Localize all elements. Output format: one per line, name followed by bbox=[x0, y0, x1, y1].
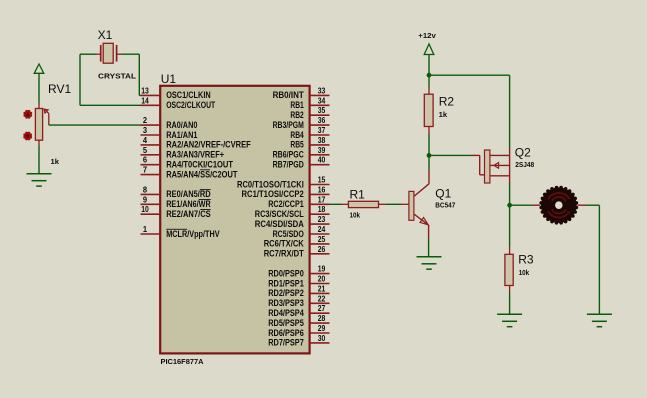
wire X1 right to U1 pin 13 bbox=[121, 54, 141, 95]
RV1 actuator marker upper bbox=[23, 110, 32, 119]
svg-text:PIC16F877A: PIC16F877A bbox=[161, 357, 205, 366]
node junction Q2/motor/R3 bbox=[507, 203, 512, 208]
ground right of motor bbox=[587, 314, 612, 326]
crystal X1 bbox=[96, 43, 121, 63]
U1 pin 4 bbox=[141, 136, 252, 150]
svg-text:34: 34 bbox=[318, 96, 326, 105]
svg-text:RB6/PGC: RB6/PGC bbox=[273, 150, 305, 160]
ground under Q1 bbox=[417, 257, 442, 269]
U1 pin 16 bbox=[242, 185, 330, 199]
U1 pin 39 bbox=[273, 146, 330, 160]
svg-text:16: 16 bbox=[318, 185, 326, 194]
wire junction to motor bbox=[510, 204, 540, 206]
potentiometer RV1 bbox=[35, 109, 48, 141]
RV1 actuator marker lower bbox=[23, 132, 32, 141]
svg-text:RC7/RX/DT: RC7/RX/DT bbox=[264, 249, 305, 259]
svg-text:RC0/T1OSO/T1CKI: RC0/T1OSO/T1CKI bbox=[237, 179, 304, 189]
wire junction to R3 bbox=[509, 205, 511, 254]
U1 pin 24 bbox=[273, 225, 330, 239]
U1 pin 15 bbox=[237, 176, 330, 190]
motor M1 bbox=[539, 186, 578, 225]
svg-text:10: 10 bbox=[141, 205, 149, 214]
wire R3 bottom to ground bbox=[509, 286, 511, 315]
svg-text:RD1/PSP1: RD1/PSP1 bbox=[268, 278, 304, 288]
svg-text:3: 3 bbox=[143, 126, 148, 135]
wire RV1 wiper to U1 pin 2 bbox=[49, 124, 141, 126]
svg-text:RD2/PSP2: RD2/PSP2 bbox=[268, 288, 304, 298]
wire R1 to Q1 base bbox=[379, 203, 409, 205]
svg-text:1: 1 bbox=[143, 225, 148, 234]
U1 pin 23 bbox=[255, 215, 330, 229]
U1 pin 10 bbox=[141, 205, 211, 219]
svg-text:1k: 1k bbox=[439, 110, 448, 119]
U1 pin 26 bbox=[264, 245, 330, 259]
U1 pin 14 bbox=[141, 96, 216, 110]
svg-text:RC2/CCP1: RC2/CCP1 bbox=[268, 199, 304, 209]
svg-text:RA4/T0CKI/C1OUT: RA4/T0CKI/C1OUT bbox=[166, 160, 233, 170]
U1 pin 1 bbox=[141, 225, 220, 239]
svg-text:37: 37 bbox=[318, 126, 326, 135]
svg-text:30: 30 bbox=[318, 334, 326, 343]
svg-text:27: 27 bbox=[318, 304, 326, 313]
svg-text:24: 24 bbox=[318, 225, 326, 234]
wire R2 bottom to junction bbox=[428, 127, 430, 156]
wire X1 left to U1 pin 14 bbox=[80, 54, 141, 105]
U1 pin 18 bbox=[255, 205, 330, 219]
svg-text:Q2: Q2 bbox=[515, 145, 531, 159]
svg-text:CRYSTAL: CRYSTAL bbox=[98, 72, 137, 81]
resistor R1 bbox=[348, 201, 378, 207]
svg-text:25: 25 bbox=[318, 235, 326, 244]
svg-text:RA2/AN2/VREF-/CVREF: RA2/AN2/VREF-/CVREF bbox=[166, 140, 251, 150]
wire power to RV1 top bbox=[38, 73, 40, 108]
U1 pin 28 bbox=[268, 314, 329, 328]
U1 pin 33 bbox=[273, 86, 330, 100]
U1 pin 22 bbox=[268, 294, 329, 308]
wire +12v rail down bbox=[428, 55, 430, 76]
svg-text:10k: 10k bbox=[519, 268, 530, 277]
svg-text:8: 8 bbox=[143, 185, 148, 194]
wire U1 pin 17 to R1 bbox=[330, 203, 349, 205]
svg-text:RE1/AN6/WR: RE1/AN6/WR bbox=[166, 199, 211, 209]
svg-text:RB5: RB5 bbox=[290, 140, 303, 150]
svg-text:RB4: RB4 bbox=[290, 130, 303, 140]
svg-text:26: 26 bbox=[318, 245, 326, 254]
U1 pin 37 bbox=[290, 126, 329, 140]
ground under R3 bbox=[497, 314, 522, 326]
svg-text:RC1/T1OSI/CCP2: RC1/T1OSI/CCP2 bbox=[242, 189, 304, 199]
svg-text:R3: R3 bbox=[518, 252, 534, 266]
svg-text:R2: R2 bbox=[439, 94, 455, 108]
U1 pin 5 bbox=[141, 146, 225, 160]
U1 pin 7 bbox=[141, 166, 238, 180]
svg-text:R1: R1 bbox=[350, 187, 366, 201]
wire junction to Q2 gate bbox=[429, 155, 485, 174]
power symbol +12v arrow bbox=[424, 44, 434, 55]
node junction top rail bbox=[427, 73, 432, 78]
svg-text:35: 35 bbox=[318, 106, 326, 115]
svg-text:RV1: RV1 bbox=[48, 82, 71, 96]
svg-text:RA5/AN4/SS/C2OUT: RA5/AN4/SS/C2OUT bbox=[166, 169, 238, 179]
svg-text:RA3/AN3/VREF+: RA3/AN3/VREF+ bbox=[166, 150, 224, 160]
ground under RV1 bbox=[27, 174, 52, 186]
U1 pin 36 bbox=[273, 116, 330, 130]
U1 pin 29 bbox=[268, 324, 329, 338]
U1 pin 20 bbox=[268, 275, 329, 289]
resistor R2 bbox=[424, 94, 433, 126]
node junction R2/Q1/Q2 bbox=[427, 153, 432, 158]
svg-text:OSC1/CLKIN: OSC1/CLKIN bbox=[166, 90, 211, 100]
svg-text:38: 38 bbox=[318, 136, 326, 145]
svg-text:40: 40 bbox=[318, 156, 326, 165]
svg-text:36: 36 bbox=[318, 116, 326, 125]
svg-text:RC6/TX/CK: RC6/TX/CK bbox=[264, 239, 305, 249]
svg-text:19: 19 bbox=[318, 265, 326, 274]
transistor Q1 bbox=[409, 184, 429, 225]
svg-text:Q1: Q1 bbox=[435, 186, 451, 200]
U1 pin 13 bbox=[141, 86, 211, 100]
wire Q1 emitter to ground bbox=[428, 225, 430, 257]
svg-text:+12v: +12v bbox=[418, 31, 436, 40]
U1 pin 19 bbox=[268, 265, 329, 279]
U1 pin 2 bbox=[141, 116, 198, 130]
svg-text:RC4/SDI/SDA: RC4/SDI/SDA bbox=[255, 219, 305, 229]
svg-text:20: 20 bbox=[318, 275, 326, 284]
U1 pin 9 bbox=[141, 195, 212, 209]
svg-text:RB7/PGD: RB7/PGD bbox=[273, 160, 304, 170]
svg-text:39: 39 bbox=[318, 146, 326, 155]
svg-text:MCLR/Vpp/THV: MCLR/Vpp/THV bbox=[166, 229, 219, 239]
svg-text:RB3/PGM: RB3/PGM bbox=[273, 120, 304, 130]
wire RV1 bottom to ground bbox=[38, 140, 40, 174]
U1 pin 8 bbox=[141, 185, 211, 199]
svg-text:RE0/AN5/RD: RE0/AN5/RD bbox=[166, 189, 211, 199]
svg-text:7: 7 bbox=[143, 166, 147, 175]
svg-text:RD3/PSP3: RD3/PSP3 bbox=[268, 298, 304, 308]
U1 pin 21 bbox=[268, 284, 329, 298]
U1 pin 27 bbox=[268, 304, 329, 318]
svg-text:5: 5 bbox=[143, 146, 148, 155]
svg-text:2: 2 bbox=[143, 116, 148, 125]
wire motor right to ground bbox=[578, 205, 600, 314]
svg-text:RA1/AN1: RA1/AN1 bbox=[166, 130, 197, 140]
power symbol (VCC arrow) above RV1 bbox=[34, 64, 44, 73]
wire top rail to Q2 drain bbox=[429, 75, 510, 155]
svg-text:6: 6 bbox=[143, 156, 148, 165]
svg-text:17: 17 bbox=[318, 195, 326, 204]
U1 pin 34 bbox=[290, 96, 329, 110]
svg-text:9: 9 bbox=[143, 195, 148, 204]
svg-text:RB1: RB1 bbox=[290, 100, 303, 110]
U1 pin 25 bbox=[264, 235, 330, 249]
svg-text:U1: U1 bbox=[161, 72, 177, 86]
svg-text:OSC2/CLKOUT: OSC2/CLKOUT bbox=[166, 100, 215, 110]
U1 pin 38 bbox=[290, 136, 329, 150]
svg-text:23: 23 bbox=[318, 215, 326, 224]
U1 pin 40 bbox=[273, 156, 330, 170]
svg-text:BC547: BC547 bbox=[435, 201, 455, 210]
op-amp U1 PIC16F877A body bbox=[160, 86, 309, 354]
U1 pin 3 bbox=[141, 126, 198, 140]
svg-text:15: 15 bbox=[318, 176, 326, 185]
svg-text:X1: X1 bbox=[98, 28, 113, 42]
U1 pin 35 bbox=[290, 106, 329, 120]
transistor Q2 (P-MOSFET) bbox=[485, 150, 510, 183]
svg-text:RE2/AN7/CS: RE2/AN7/CS bbox=[166, 209, 211, 219]
svg-text:RD4/PSP4: RD4/PSP4 bbox=[268, 308, 304, 318]
svg-text:4: 4 bbox=[143, 136, 148, 145]
U1 pin 17 bbox=[268, 195, 329, 209]
svg-text:RD7/PSP7: RD7/PSP7 bbox=[268, 338, 304, 348]
svg-text:10k: 10k bbox=[350, 210, 361, 219]
wire Q2 source to junction bbox=[509, 183, 511, 205]
svg-text:RD0/PSP0: RD0/PSP0 bbox=[268, 268, 304, 278]
svg-text:22: 22 bbox=[318, 294, 326, 303]
U1 pin 30 bbox=[268, 334, 329, 348]
svg-text:21: 21 bbox=[318, 284, 326, 293]
svg-text:18: 18 bbox=[318, 205, 326, 214]
svg-text:29: 29 bbox=[318, 324, 326, 333]
svg-text:RC3/SCK/SCL: RC3/SCK/SCL bbox=[255, 209, 305, 219]
svg-text:RB2: RB2 bbox=[290, 110, 303, 120]
svg-text:33: 33 bbox=[318, 86, 326, 95]
svg-text:28: 28 bbox=[318, 314, 326, 323]
svg-text:1k: 1k bbox=[51, 157, 60, 166]
svg-text:RD6/PSP6: RD6/PSP6 bbox=[268, 328, 304, 338]
svg-text:14: 14 bbox=[141, 96, 149, 105]
resistor R3 bbox=[505, 254, 513, 285]
wire junction to Q1 collector bbox=[428, 155, 430, 183]
svg-text:RD5/PSP5: RD5/PSP5 bbox=[268, 318, 304, 328]
svg-text:RB0/INT: RB0/INT bbox=[273, 90, 305, 100]
svg-text:RC5/SDO: RC5/SDO bbox=[273, 229, 304, 239]
U1 pin 6 bbox=[141, 156, 234, 170]
svg-text:2SJ48: 2SJ48 bbox=[515, 160, 534, 169]
svg-text:13: 13 bbox=[141, 86, 149, 95]
svg-text:RA0/AN0: RA0/AN0 bbox=[166, 120, 197, 130]
wire rail to R2 bbox=[428, 75, 430, 94]
